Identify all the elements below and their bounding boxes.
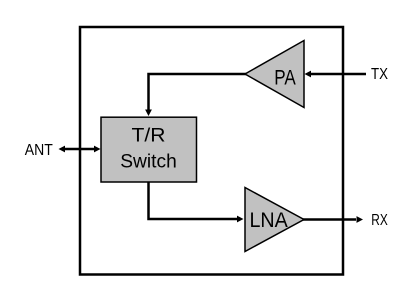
svg-text:RX: RX — [371, 212, 388, 229]
wire T/R switch to LNA — [149, 181, 244, 222]
PA amplifier — [245, 41, 304, 108]
T/R switch block — [101, 117, 197, 182]
wire TX input to PA — [305, 71, 367, 78]
outer system boundary box — [80, 27, 343, 275]
label RX — [371, 212, 388, 229]
svg-text:Switch: Switch — [120, 150, 177, 172]
svg-text:T/R: T/R — [132, 125, 166, 147]
wire LNA output to RX — [303, 216, 363, 223]
wire PA output to T/R switch — [145, 74, 246, 116]
LNA amplifier — [245, 188, 304, 252]
wire ANT bidirectional — [59, 146, 101, 153]
svg-text:LNA: LNA — [249, 209, 287, 232]
svg-text:ANT: ANT — [25, 142, 53, 159]
svg-text:PA: PA — [274, 66, 296, 89]
label ANT — [25, 142, 53, 159]
svg-text:TX: TX — [371, 66, 389, 83]
label TX — [371, 66, 389, 83]
